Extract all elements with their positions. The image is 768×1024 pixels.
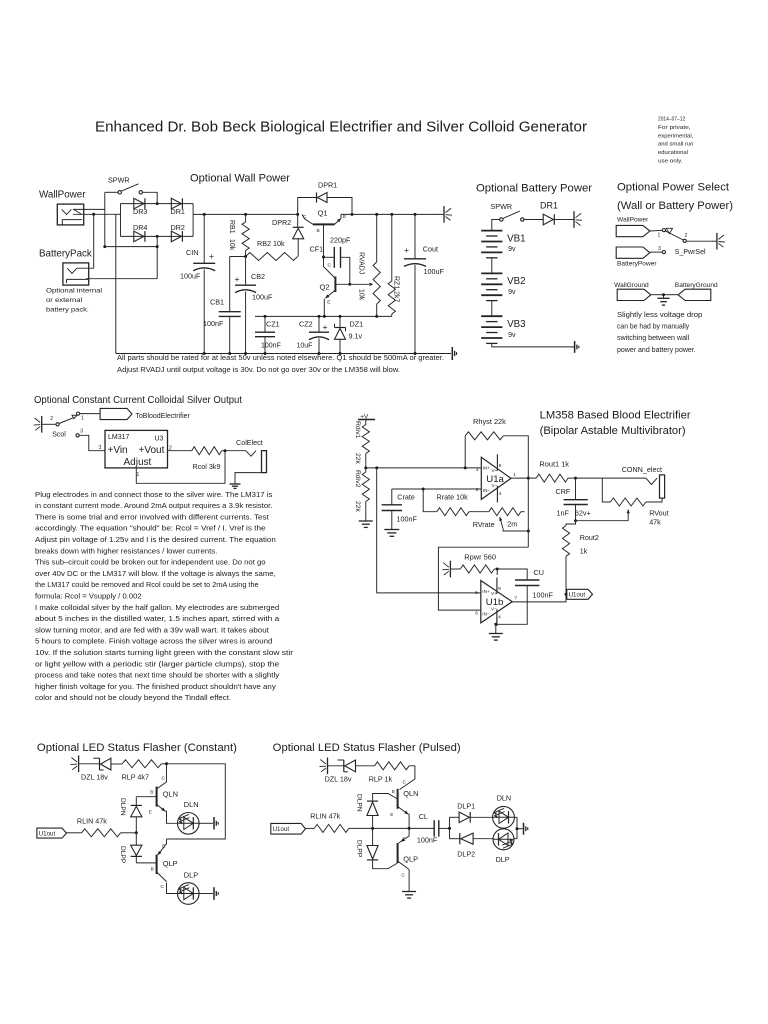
svg-text:Rdiv1: Rdiv1 xyxy=(354,421,361,439)
wire switch to terminal xyxy=(686,240,713,242)
svg-text:accordingly. The equation "sho: accordingly. The equation "should" be: R… xyxy=(35,524,266,533)
svg-text:breaks down with higher resist: breaks down with higher resistances / lo… xyxy=(35,546,217,555)
svg-text:ToBloodElectrifier: ToBloodElectrifier xyxy=(135,413,190,420)
ground QLP xyxy=(402,891,416,893)
svg-text:DPR2: DPR2 xyxy=(272,218,291,227)
svg-text:+Vin: +Vin xyxy=(108,445,128,456)
svg-text:100nF: 100nF xyxy=(533,590,554,599)
wire QLN emitter to DLN xyxy=(165,811,177,823)
wire rail right of Q1 xyxy=(341,213,440,215)
svg-text:2m: 2m xyxy=(507,519,517,528)
wire lower link xyxy=(105,246,157,248)
wire divider mid xyxy=(365,454,367,473)
bridge rectifier frame xyxy=(121,203,194,205)
svg-text:C: C xyxy=(401,872,405,878)
svg-text:BatteryGround: BatteryGround xyxy=(675,282,718,289)
svg-text:Crate: Crate xyxy=(397,492,415,501)
svg-text:100uF: 100uF xyxy=(252,293,273,302)
svg-text:CB1: CB1 xyxy=(210,298,224,307)
svg-text:DLP1: DLP1 xyxy=(457,801,475,810)
wire QLN base xyxy=(136,796,156,798)
wire ground rail bottom xyxy=(116,353,451,355)
svg-text:+: + xyxy=(404,245,409,255)
wire DLP2 to DLP xyxy=(473,838,493,840)
ground Rdiv2 xyxy=(365,502,367,522)
svg-text:RB1: RB1 xyxy=(228,220,235,234)
terminal ground right xyxy=(451,347,453,360)
svg-text:IN−: IN− xyxy=(483,488,491,493)
wire DLP to ground xyxy=(199,893,213,895)
svg-text:DZ1: DZ1 xyxy=(350,320,364,329)
svg-text:100nF: 100nF xyxy=(203,319,224,328)
wire input to DZL xyxy=(79,763,100,765)
svg-text:+: + xyxy=(209,251,214,261)
wire DZL to RLP xyxy=(111,763,122,765)
svg-text:RLP 1k: RLP 1k xyxy=(369,774,393,783)
wire Rrate to RVrate xyxy=(469,511,489,513)
svg-text:10k: 10k xyxy=(228,239,235,251)
svg-text:color and should not be cloudy: color and should not be cloudy beyond th… xyxy=(35,693,231,702)
svg-text:CIN: CIN xyxy=(186,248,198,257)
svg-text:100uF: 100uF xyxy=(424,267,445,276)
svg-text:RLIN 47k: RLIN 47k xyxy=(77,816,107,825)
wire LED pair to terminal xyxy=(514,817,517,838)
wire BatteryPack pin2 xyxy=(86,278,157,280)
wire Rout2 to U1out xyxy=(565,556,567,594)
wire QLP base pulsed xyxy=(373,860,398,869)
svg-text:U1b: U1b xyxy=(486,597,504,608)
wire V+ to U1b xyxy=(496,569,498,575)
svg-text:2014–07–12: 2014–07–12 xyxy=(658,117,685,123)
svg-text:CF1: CF1 xyxy=(310,245,324,254)
svg-text:100nF: 100nF xyxy=(261,343,281,350)
wire RLIN to base chain xyxy=(121,832,137,834)
wire input to Scol xyxy=(42,423,56,425)
wire battery bottom xyxy=(492,343,574,347)
svg-text:+Vout: +Vout xyxy=(139,445,165,456)
wire Q1 base to CF1 node xyxy=(323,224,325,257)
svg-text:DLN: DLN xyxy=(497,793,511,802)
svg-text:5: 5 xyxy=(475,590,478,596)
svg-text:C: C xyxy=(403,779,407,785)
svg-text:100nF: 100nF xyxy=(397,514,418,523)
svg-text:LM358 Based Blood Electrifier: LM358 Based Blood Electrifier xyxy=(540,410,691,422)
wire divider to IN+ xyxy=(366,467,482,469)
wire RVrate wiper to node xyxy=(503,529,528,531)
diode DR1 xyxy=(171,198,181,209)
wire bridge bottom drop xyxy=(156,236,158,278)
wire RVout right to jack sleeve xyxy=(646,498,662,502)
wire U1a output xyxy=(511,477,536,479)
svg-text:RB2 10k: RB2 10k xyxy=(257,239,285,248)
svg-text:E: E xyxy=(343,214,346,220)
svg-text:9v: 9v xyxy=(508,332,516,339)
wire VB2 to VB3 xyxy=(491,301,493,317)
svg-text:5 hours to complete. Finish vo: 5 hours to complete. Finish voltage acro… xyxy=(35,637,272,646)
wire divider to U1b IN+ xyxy=(377,468,481,593)
ground U1b xyxy=(489,633,503,635)
svg-text:IN+: IN+ xyxy=(482,589,490,594)
svg-text:2: 2 xyxy=(476,487,479,493)
svg-text:3: 3 xyxy=(99,445,102,451)
svg-text:Optional Battery Power: Optional Battery Power xyxy=(476,183,592,195)
svg-text:62v+: 62v+ xyxy=(575,509,591,518)
svg-text:100nF: 100nF xyxy=(417,835,438,844)
svg-text:LM317: LM317 xyxy=(108,434,130,441)
svg-text:1k: 1k xyxy=(580,546,588,555)
svg-text:VB2: VB2 xyxy=(507,276,526,287)
wire Scol throw3 to LM317 xyxy=(79,435,105,450)
svg-text:1: 1 xyxy=(137,472,140,478)
svg-text:RVrate: RVrate xyxy=(473,520,495,529)
svg-text:DPR1: DPR1 xyxy=(318,181,337,190)
svg-text:B: B xyxy=(317,228,320,234)
svg-text:CZ2: CZ2 xyxy=(299,320,313,329)
svg-text:process and take notes that ne: process and take notes that next time sh… xyxy=(35,671,280,680)
svg-text:QLN: QLN xyxy=(403,789,418,798)
wire Vout to Rcol xyxy=(168,450,192,452)
wire U1b output to U1out xyxy=(512,594,566,602)
svg-text:SPWR: SPWR xyxy=(108,176,130,185)
wire switch to DR1 xyxy=(524,219,543,221)
op-amp U1a xyxy=(481,457,511,499)
svg-text:WallGround: WallGround xyxy=(614,282,649,289)
svg-text:B: B xyxy=(392,789,395,794)
wire battery top lead xyxy=(492,220,500,231)
svg-text:10v. If the solution starts tu: 10v. If the solution starts turning ligh… xyxy=(35,648,294,657)
svg-text:DLP: DLP xyxy=(184,870,198,879)
svg-text:ColElect: ColElect xyxy=(236,438,263,447)
svg-text:CL: CL xyxy=(419,812,428,821)
svg-text:2: 2 xyxy=(685,233,688,239)
svg-text:DR2: DR2 xyxy=(171,223,185,232)
wire Scol common to connector xyxy=(80,413,100,415)
svg-text:BatteryPack: BatteryPack xyxy=(39,249,92,260)
svg-text:RVADJ: RVADJ xyxy=(358,252,365,274)
svg-text:Cout: Cout xyxy=(423,245,438,254)
svg-text:I make colloidal silver by the: I make colloidal silver by the half gall… xyxy=(35,603,279,612)
svg-text:22k: 22k xyxy=(354,501,361,513)
svg-text:in constant current mode. Arou: in constant current mode. Around 2mA out… xyxy=(35,501,272,510)
svg-text:Adjust RVADJ until output volt: Adjust RVADJ until output voltage is 30v… xyxy=(117,367,400,374)
wire Rcol to jack xyxy=(222,450,241,452)
wire switch drop xyxy=(104,192,106,246)
wire RLIN to node pulsed xyxy=(349,827,409,829)
battery VB1 9v xyxy=(481,230,502,232)
wire U1b V- to ground xyxy=(496,618,498,624)
svg-text:Rpwr 560: Rpwr 560 xyxy=(464,553,496,562)
svg-text:E: E xyxy=(149,810,152,815)
svg-text:(Wall or Battery Power): (Wall or Battery Power) xyxy=(617,200,733,212)
svg-text:U1out: U1out xyxy=(569,592,586,599)
svg-text:IN−: IN− xyxy=(482,612,490,617)
svg-text:Rrate 10k: Rrate 10k xyxy=(437,492,469,501)
wire SPWR right lead to bridge top xyxy=(143,192,158,203)
svg-text:battery pack.: battery pack. xyxy=(46,307,89,314)
svg-text:9.1v: 9.1v xyxy=(349,332,363,341)
wire QLP collector to ground xyxy=(408,870,410,892)
terminal battery ground xyxy=(574,341,576,353)
wire CB1 tee xyxy=(230,256,246,258)
svg-text:3: 3 xyxy=(476,467,479,473)
power terminal Rpwr xyxy=(449,561,451,578)
svg-text:47k: 47k xyxy=(649,518,661,527)
svg-text:CONN_elect: CONN_elect xyxy=(622,465,662,474)
svg-text:CRF: CRF xyxy=(556,487,571,496)
wire QLP base xyxy=(136,862,156,864)
wire WallPower to switch xyxy=(650,229,662,232)
svg-text:+: + xyxy=(323,322,328,332)
svg-text:use only.: use only. xyxy=(658,159,683,165)
svg-text:SPWR: SPWR xyxy=(491,202,513,211)
op-amp U1b xyxy=(481,581,512,623)
svg-text:DR1: DR1 xyxy=(540,201,558,211)
wire Adjust feedback xyxy=(136,451,225,484)
wire node to CL xyxy=(409,827,434,829)
wire chain mid pulsed xyxy=(372,816,374,846)
svg-text:U1a: U1a xyxy=(486,474,504,485)
wire Rout1 to jack xyxy=(576,477,646,479)
svg-text:Enhanced Dr. Bob Beck Biologic: Enhanced Dr. Bob Beck Biological Electri… xyxy=(95,120,587,136)
svg-text:100uF: 100uF xyxy=(180,272,201,281)
wire input to DZL pulsed xyxy=(328,765,344,767)
svg-text:2: 2 xyxy=(50,416,53,422)
svg-text:DLN: DLN xyxy=(184,800,199,809)
svg-text:10uF: 10uF xyxy=(297,343,313,350)
svg-text:about 5 inches in the distille: about 5 inches in the distilled water, 1… xyxy=(35,614,279,623)
wire RLP to QLN collector xyxy=(400,766,415,790)
connector U1out flasher constant xyxy=(37,828,67,838)
diode DR4 xyxy=(134,231,144,242)
svg-text:the LM317 could be removed and: the LM317 could be removed and Rcol coul… xyxy=(35,580,259,589)
svg-text:Optional LED Status Flasher (C: Optional LED Status Flasher (Constant) xyxy=(37,742,237,754)
svg-text:DLP: DLP xyxy=(496,855,510,864)
svg-text:IN+: IN+ xyxy=(483,466,491,471)
svg-text:DLP2: DLP2 xyxy=(457,849,475,858)
svg-text:Rout2: Rout2 xyxy=(580,533,599,542)
svg-text:B: B xyxy=(150,790,153,795)
connector U1out xyxy=(567,589,593,599)
svg-text:1nF: 1nF xyxy=(557,509,570,518)
svg-text:Optional internal: Optional internal xyxy=(46,288,103,295)
svg-text:CB2: CB2 xyxy=(251,272,265,281)
svg-text:Optional Power Select: Optional Power Select xyxy=(617,182,729,194)
wire DLP1 to DLN xyxy=(470,816,493,818)
diode DR3 xyxy=(134,198,144,209)
svg-text:B: B xyxy=(151,866,154,871)
ground ColElect xyxy=(235,473,262,484)
connector BatteryGround xyxy=(678,289,711,300)
svg-text:CZ1: CZ1 xyxy=(266,320,280,329)
svg-text:Adjust pin voltage of 1.25v an: Adjust pin voltage of 1.25v and I is the… xyxy=(35,535,276,544)
wire WallPower pin2 to ground rail xyxy=(73,214,116,353)
svg-text:7: 7 xyxy=(514,596,517,602)
terminal flasher input xyxy=(78,756,80,773)
svg-text:or light yellow with a periodi: or light yellow with a periodic stir (la… xyxy=(35,659,279,668)
svg-text:8: 8 xyxy=(499,463,502,469)
svg-text:Adjust: Adjust xyxy=(124,457,152,468)
svg-text:DZL 18v: DZL 18v xyxy=(325,774,352,783)
svg-text:RLIN 47k: RLIN 47k xyxy=(310,811,340,820)
diode DR2 xyxy=(171,231,181,242)
svg-text:1: 1 xyxy=(81,416,84,422)
svg-text:QLN: QLN xyxy=(163,789,178,798)
terminal battery output xyxy=(570,219,575,221)
wire IN- net xyxy=(423,488,481,490)
svg-text:E: E xyxy=(327,300,330,306)
svg-text:WallPower: WallPower xyxy=(617,217,649,224)
wire zener rail xyxy=(255,315,392,317)
ground Crate xyxy=(384,529,399,531)
svg-text:4: 4 xyxy=(498,615,501,621)
svg-text:DLPN: DLPN xyxy=(119,798,126,816)
terminal colloidal input xyxy=(41,416,43,433)
wire Rpwr to V+ node xyxy=(494,568,497,570)
svg-text:Rout1 1k: Rout1 1k xyxy=(539,459,569,468)
svg-text:U1out: U1out xyxy=(39,830,56,837)
svg-text:slow turning motor, and are fe: slow turning motor, and are fed with a 3… xyxy=(35,625,269,634)
svg-text:CU: CU xyxy=(534,568,544,577)
svg-text:Q2: Q2 xyxy=(320,282,330,291)
wire DZL to RLP pulsed xyxy=(356,765,375,767)
svg-text:220pF: 220pF xyxy=(330,235,351,244)
svg-text:V+: V+ xyxy=(492,468,498,473)
svg-text:C: C xyxy=(162,776,166,782)
svg-text:For private,: For private, xyxy=(658,125,691,131)
svg-text:DLPP: DLPP xyxy=(119,846,126,864)
svg-text:Scol: Scol xyxy=(52,431,66,438)
svg-text:educational: educational xyxy=(658,150,688,156)
terminal pulsed input xyxy=(327,758,329,775)
battery VB2 9v xyxy=(481,272,502,274)
svg-text:Optional LED Status Flasher (P: Optional LED Status Flasher (Pulsed) xyxy=(273,742,461,754)
terminal output right xyxy=(440,213,445,215)
svg-text:QLP: QLP xyxy=(403,854,418,863)
wire BatteryGround to ground xyxy=(664,294,678,296)
connector U1out flasher pulsed xyxy=(271,823,306,834)
wire main positive rail xyxy=(193,213,298,215)
svg-text:RVout: RVout xyxy=(649,509,668,518)
svg-text:3: 3 xyxy=(658,246,661,252)
svg-text:6: 6 xyxy=(475,611,478,617)
svg-text:DZL 18v: DZL 18v xyxy=(81,773,108,782)
svg-text:1: 1 xyxy=(513,472,516,478)
svg-text:DR1: DR1 xyxy=(171,207,185,216)
wire QLN base pulsed xyxy=(373,794,398,802)
svg-text:C: C xyxy=(328,263,332,269)
svg-text:Optional Constant Current Coll: Optional Constant Current Colloidal Silv… xyxy=(34,395,242,406)
connector BatteryPower select xyxy=(616,247,650,258)
svg-text:VB3: VB3 xyxy=(507,319,526,330)
terminal pulsed ground xyxy=(523,823,525,835)
svg-text:1: 1 xyxy=(658,233,661,239)
svg-text:DLPN: DLPN xyxy=(356,794,363,812)
wire BatteryPack pin1 riser xyxy=(77,214,94,268)
terminal DLN ground xyxy=(213,817,215,830)
svg-text:(Bipolar Astable Multivibrator: (Bipolar Astable Multivibrator) xyxy=(540,425,686,437)
text colloidal silver instructions xyxy=(35,490,294,702)
svg-text:experimental,: experimental, xyxy=(658,133,694,139)
svg-text:3: 3 xyxy=(80,429,83,435)
svg-text:DR3: DR3 xyxy=(133,207,147,216)
svg-text:Slightly less voltage drop: Slightly less voltage drop xyxy=(617,312,702,319)
svg-text:V+: V+ xyxy=(491,591,497,596)
wire CL to LED pairs xyxy=(439,827,450,829)
svg-text:DLPP: DLPP xyxy=(356,840,363,858)
svg-text:RLP 4k7: RLP 4k7 xyxy=(122,773,149,782)
svg-text:There is some trial and error: There is some trial and error involved w… xyxy=(35,512,269,521)
svg-text:All parts should be rated for: All parts should be rated for at least 5… xyxy=(117,355,444,362)
wire DR1 to terminal xyxy=(554,219,570,221)
svg-text:over 40v DC or the LM317 will: over 40v DC or the LM317 will blow. If t… xyxy=(35,569,276,578)
wire WallGround to ground xyxy=(651,294,663,296)
svg-text:U3: U3 xyxy=(155,436,164,443)
svg-text:8: 8 xyxy=(498,586,501,592)
svg-text:higher finish voltage for you.: higher finish voltage for you. The finis… xyxy=(35,682,276,691)
wire bridge left stub xyxy=(116,213,121,215)
svg-text:power and battery power.: power and battery power. xyxy=(617,347,696,354)
svg-text:Plug electrodes in and connect: Plug electrodes in and connect those to … xyxy=(35,490,273,499)
wire SPWR left lead xyxy=(105,191,118,193)
svg-text:9v: 9v xyxy=(508,246,516,253)
svg-text:and small run: and small run xyxy=(658,142,693,148)
svg-text:Rhyst 22k: Rhyst 22k xyxy=(473,417,506,426)
svg-text:22k: 22k xyxy=(354,453,361,465)
terminal power select output xyxy=(712,240,717,242)
svg-text:WallPower: WallPower xyxy=(39,190,86,201)
wire chain mid xyxy=(135,817,137,845)
svg-text:S_PwrSel: S_PwrSel xyxy=(675,249,706,256)
wire RVout wiper xyxy=(576,520,629,522)
svg-text:10k: 10k xyxy=(358,289,365,301)
wire Rhyst to output node xyxy=(503,436,528,547)
svg-text:QLP: QLP xyxy=(163,859,178,868)
svg-text:switching between wall: switching between wall xyxy=(617,335,690,342)
ground power select xyxy=(663,295,665,299)
regulator U3 LM317 xyxy=(105,430,168,468)
svg-text:This sub–circuit could be brok: This sub–circuit could be broken out for… xyxy=(35,558,266,567)
wire QLP collector to DLP xyxy=(167,883,178,894)
svg-text:Rcol 3k9: Rcol 3k9 xyxy=(193,462,221,471)
svg-text:9v: 9v xyxy=(508,289,516,296)
svg-text:formula: Rcol = Vsupply / 0.00: formula: Rcol = Vsupply / 0.002 xyxy=(35,592,142,601)
svg-text:or external: or external xyxy=(46,297,83,304)
wire QLN emitter to node xyxy=(407,814,410,828)
svg-text:+: + xyxy=(235,274,240,284)
battery VB3 9v xyxy=(481,315,502,317)
svg-text:Q1: Q1 xyxy=(318,209,328,218)
terminal DLP ground xyxy=(213,887,215,900)
wire feedback to U1b IN- xyxy=(438,547,528,610)
wire Q2 base to RVADJ wiper xyxy=(335,283,369,285)
svg-text:E: E xyxy=(390,812,393,817)
connector ToBloodElectrifier xyxy=(100,408,132,419)
svg-text:U1out: U1out xyxy=(273,826,290,833)
svg-text:Rdiv2: Rdiv2 xyxy=(354,470,361,488)
wire IN- to Rrate xyxy=(423,489,437,512)
wire top rail to right edge xyxy=(167,764,226,839)
wire WallPower pin1 to switch xyxy=(73,208,105,210)
wire VB1 to VB2 xyxy=(491,258,493,274)
svg-text:BatteryPower: BatteryPower xyxy=(617,261,657,268)
svg-text:Optional Wall Power: Optional Wall Power xyxy=(190,173,290,185)
svg-text:DR4: DR4 xyxy=(133,223,147,232)
svg-text:can be had by manually: can be had by manually xyxy=(617,324,690,331)
wire DLN to ground xyxy=(199,822,213,824)
svg-text:VB1: VB1 xyxy=(507,233,526,244)
svg-text:4: 4 xyxy=(499,491,502,497)
